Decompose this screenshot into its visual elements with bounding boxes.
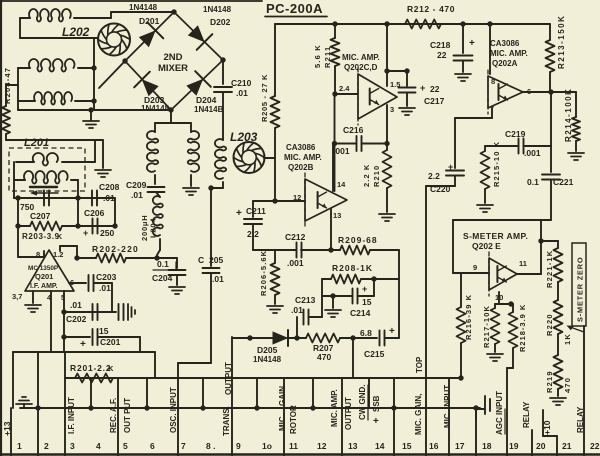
wire (232, 337, 297, 339)
svg-text:+: + (389, 326, 395, 337)
svg-text:1N4148: 1N4148 (141, 104, 170, 113)
label R217-10K (482, 305, 491, 348)
wire (157, 258, 177, 268)
svg-text:MIC. AMP.: MIC. AMP. (330, 389, 339, 427)
label 750 (20, 202, 34, 212)
resistor R221 zigzag (554, 248, 563, 282)
svg-text:Q201: Q201 (35, 272, 53, 281)
svg-text:C219: C219 (505, 129, 526, 139)
bus node terminal 12 (310, 405, 315, 410)
wire (155, 110, 191, 132)
svg-text:+: + (469, 38, 475, 49)
node (15, 223, 117, 228)
svg-text:13: 13 (333, 211, 341, 220)
svg-text:7: 7 (181, 441, 186, 451)
svg-text:MIC.: MIC. (278, 414, 287, 431)
terminal 21 wire (543, 410, 557, 456)
svg-text:14: 14 (375, 441, 385, 451)
pin 3 (390, 105, 394, 114)
wire (426, 176, 455, 186)
svg-text:CA3086: CA3086 (286, 143, 316, 152)
trimmer fan L203 (234, 142, 265, 173)
pin 5 (61, 291, 65, 352)
wire (334, 24, 336, 94)
svg-text:C211: C211 (246, 206, 266, 216)
pin 7 (490, 104, 494, 113)
label OUTPUT upper (224, 362, 233, 395)
label OUT PUT (123, 398, 132, 433)
node (91, 65, 96, 103)
svg-text:19: 19 (509, 441, 519, 451)
label OSC INPUT (169, 387, 178, 433)
capacitor C218 (454, 24, 473, 61)
capacitor C210 (214, 87, 232, 92)
svg-text:20: 20 (536, 441, 546, 451)
svg-text:I.F. INPUT: I.F. INPUT (67, 397, 76, 434)
wire (77, 257, 157, 259)
terminal 1 wire (10, 408, 12, 456)
resistor R208 zigzag (331, 275, 361, 284)
pin 12 (293, 193, 301, 202)
wire (14, 162, 18, 198)
terminal 14 wire (368, 378, 370, 408)
ground (487, 344, 503, 361)
label C205 (198, 255, 223, 265)
capacitor C203 (89, 275, 94, 291)
svg-text:+: + (420, 83, 425, 93)
svg-text:D205: D205 (257, 345, 278, 355)
capacitor C209 (148, 175, 165, 197)
border bottom edge (0, 453, 600, 456)
svg-text:R210: R210 (372, 165, 381, 187)
inductor winding 2 (29, 59, 75, 72)
capacitor C221 (542, 146, 560, 180)
ground (169, 275, 185, 294)
svg-text:PC-200A: PC-200A (266, 1, 323, 16)
svg-text:470: 470 (317, 352, 331, 362)
label RELAY t20 (522, 401, 531, 428)
diode D205 (273, 330, 288, 346)
terminal number 13 (348, 441, 358, 451)
node bridge top (171, 9, 176, 14)
ground (325, 296, 341, 317)
wire (98, 337, 140, 352)
label R214-100K (564, 88, 573, 142)
label L201 (24, 137, 49, 149)
svg-text:1N4148: 1N4148 (129, 3, 158, 12)
wire (75, 68, 94, 101)
label R215-10K (492, 141, 501, 187)
node (247, 335, 252, 340)
terminal number 1 (17, 441, 22, 451)
svg-text:Q202C,D: Q202C,D (344, 63, 378, 72)
wire row C207 C208 (18, 197, 115, 199)
pin 10 (495, 293, 503, 302)
capacitor C219 (519, 139, 524, 154)
wire (74, 12, 174, 18)
svg-text:1K: 1K (563, 333, 572, 345)
svg-text:R216-39 K: R216-39 K (464, 294, 473, 340)
capacitor C214 (353, 289, 358, 304)
label R207 470 (313, 343, 334, 362)
node (332, 21, 337, 26)
svg-text:C217: C217 (424, 96, 445, 106)
inductor L201 main winding (14, 171, 78, 198)
svg-text:8 .: 8 . (206, 441, 215, 451)
terminal number 21 (562, 441, 572, 451)
svg-text:C216: C216 (343, 125, 364, 135)
label R213-150K (557, 15, 566, 69)
ground (550, 389, 566, 405)
node (74, 255, 79, 260)
label plus (389, 326, 395, 337)
terminal number 3 (70, 441, 75, 451)
svg-text:5.6 K: 5.6 K (313, 44, 322, 68)
svg-text:C215: C215 (364, 349, 385, 359)
label 200uH (140, 214, 149, 241)
svg-text:MIC. AMP.: MIC. AMP. (284, 153, 322, 162)
svg-text:ROTOR: ROTOR (289, 405, 298, 434)
node (487, 21, 492, 26)
terminal number 8 . (206, 441, 215, 451)
label CW GND (358, 384, 368, 420)
label SSB (372, 395, 381, 427)
svg-text:Q202 E: Q202 E (472, 241, 501, 251)
capacitor C208 (92, 191, 97, 206)
svg-text:.01: .01 (99, 283, 111, 293)
capacitor C216 (357, 136, 362, 151)
svg-text:C221: C221 (553, 177, 574, 187)
terminal 15 wire (393, 378, 395, 456)
node (61, 309, 66, 339)
node bridge left (122, 58, 127, 63)
wire (335, 143, 388, 145)
wire (335, 93, 358, 95)
svg-text:R214-100K: R214-100K (564, 88, 573, 142)
pin 1.2 (53, 246, 77, 259)
terminal 3 wire (64, 352, 66, 456)
node (384, 21, 389, 26)
terminal number 22 (590, 441, 600, 451)
op-amp Q202C,D (358, 68, 397, 125)
terminal number 9 (236, 441, 241, 451)
svg-text:CA3086: CA3086 (490, 39, 520, 48)
svg-text:11: 11 (519, 259, 527, 268)
pin 8 (491, 77, 495, 86)
svg-text:2.4: 2.4 (339, 84, 350, 93)
svg-text:C218: C218 (430, 40, 451, 50)
tuning arrow (30, 190, 58, 195)
bus node terminal 10 (254, 405, 259, 410)
svg-text:6: 6 (150, 441, 155, 451)
svg-text:205: 205 (209, 255, 223, 265)
label C214 (350, 284, 372, 318)
ground (379, 188, 395, 221)
svg-text:R218-3.9 K: R218-3.9 K (518, 304, 527, 352)
svg-text:22: 22 (430, 84, 440, 94)
svg-text:GAIN: GAIN (278, 386, 287, 406)
wire (332, 144, 334, 192)
terminal 17 wire (448, 378, 450, 456)
label MIC GAIN t16 (414, 394, 423, 435)
svg-text:Q202A: Q202A (492, 59, 518, 68)
svg-text:3,7: 3,7 (12, 292, 22, 301)
terminal 5 wire (117, 378, 119, 456)
label 1N4148 D201 (129, 3, 158, 12)
label C220 (428, 162, 453, 194)
wire (557, 334, 559, 355)
wire (453, 180, 551, 273)
label R218-3.9K (518, 304, 527, 352)
wire (460, 343, 462, 378)
svg-text:.01: .01 (291, 305, 303, 315)
wire (453, 272, 489, 274)
node bridge right (220, 57, 225, 62)
terminal number 6 (150, 441, 155, 451)
wire (178, 273, 211, 363)
slug bar (30, 186, 57, 188)
label +10 (542, 420, 552, 435)
svg-text:2.2 K: 2.2 K (362, 164, 371, 187)
svg-text:2: 2 (44, 441, 49, 451)
svg-text:C206: C206 (84, 208, 105, 218)
svg-text:RELAY: RELAY (576, 406, 585, 433)
svg-text:D201: D201 (139, 16, 160, 26)
svg-text:REC. A.F.: REC. A.F. (109, 398, 118, 433)
ground (183, 175, 199, 195)
svg-text:RELAY: RELAY (522, 401, 531, 428)
label R208-1K (332, 263, 373, 273)
svg-text:5: 5 (123, 441, 128, 451)
wire bus (20, 407, 480, 409)
wire line1 (65, 377, 461, 379)
svg-text:R213-150K: R213-150K (557, 15, 566, 69)
svg-text:R220: R220 (545, 313, 554, 336)
terminal 10 wire (256, 378, 258, 408)
svg-text:.01: .01 (131, 190, 143, 200)
label CA3086 Q202A (490, 39, 528, 68)
capacitor C211 (244, 201, 262, 224)
inductor secondary vertical (188, 131, 199, 172)
ground (83, 110, 99, 128)
dashed box L201 (9, 148, 85, 191)
capacitor C207 (44, 191, 49, 206)
label D203 (144, 95, 165, 105)
svg-text:R221-1K: R221-1K (545, 250, 554, 288)
label R203-3.9K (22, 232, 62, 241)
terminal 16 wire (425, 186, 427, 456)
node (330, 293, 335, 298)
wire row C202 (64, 311, 116, 313)
node (350, 335, 355, 340)
label MIC INPUT (443, 385, 452, 428)
label MC1350P (28, 265, 59, 272)
svg-text:C201: C201 (100, 337, 121, 347)
label C218 (430, 38, 475, 60)
svg-text:22: 22 (590, 441, 600, 451)
terminal number 19 (509, 441, 519, 451)
wire (485, 145, 551, 147)
svg-text:S-METER AMP.: S-METER AMP. (463, 231, 528, 241)
terminal number 1o (262, 441, 272, 451)
svg-text:MIC. AMP.: MIC. AMP. (342, 53, 380, 62)
label plus (80, 339, 86, 350)
ground sideways (128, 304, 135, 320)
svg-text:R206-5.6K: R206-5.6K (259, 250, 268, 296)
terminal 8 wire (202, 378, 204, 408)
svg-text:1N4148: 1N4148 (203, 5, 232, 14)
svg-text:R212 - 470: R212 - 470 (407, 4, 455, 14)
wire (77, 198, 79, 226)
pin 9 (473, 263, 477, 272)
svg-text:.001: .001 (287, 258, 304, 268)
svg-text:.01: .01 (212, 274, 224, 284)
terminal 4 wire (90, 378, 92, 408)
node (88, 107, 93, 112)
terminal number 4 (96, 441, 101, 451)
svg-text:OUTPUT: OUTPUT (224, 362, 233, 395)
svg-text:R219: R219 (545, 370, 554, 393)
terminal 11 wire (283, 378, 285, 456)
svg-text:C203: C203 (96, 272, 117, 282)
wire (274, 128, 276, 198)
label 5.6K R211 (313, 44, 332, 68)
capacitor C206 (84, 208, 105, 234)
node (548, 89, 553, 94)
bus node terminal 15 (391, 405, 396, 410)
svg-text:0.1: 0.1 (157, 259, 169, 269)
label 1N4148 D203 (141, 104, 170, 113)
label C215 (364, 349, 385, 359)
wire (275, 200, 305, 202)
terminal number 18 (482, 441, 492, 451)
label C216 (343, 125, 364, 135)
label C205 value (212, 274, 224, 284)
label C216 value (333, 146, 350, 156)
svg-text:1N4148: 1N4148 (253, 355, 282, 364)
label D202 (210, 17, 231, 27)
svg-text:C212: C212 (285, 232, 306, 242)
svg-text:R208-1K: R208-1K (332, 263, 373, 273)
svg-text:TRANS.: TRANS. (222, 406, 231, 436)
wire (211, 182, 223, 188)
label 0.1 box (153, 259, 176, 270)
wire (222, 60, 224, 84)
wire row C201 (64, 336, 90, 338)
svg-text:.001: .001 (333, 146, 350, 156)
svg-text:R202-220: R202-220 (92, 244, 139, 254)
ground (95, 140, 111, 177)
label C221 (527, 177, 574, 187)
ground (399, 93, 415, 115)
label MIC AMP Q202CD (342, 53, 380, 72)
svg-text:3: 3 (70, 441, 75, 451)
capacitor C220 (446, 171, 464, 176)
pin 6 (527, 87, 531, 96)
label R212-470 (407, 4, 455, 14)
svg-text:+: + (373, 416, 379, 427)
label L204 (149, 218, 158, 238)
svg-text:14: 14 (337, 180, 346, 189)
label C202 (66, 314, 87, 324)
label MIC AMP (330, 389, 339, 427)
label R202-220 (92, 244, 139, 254)
wire (387, 70, 407, 72)
op-amp Q202A (488, 70, 523, 114)
svg-text:.01: .01 (236, 88, 248, 98)
wire (94, 283, 112, 312)
wire (489, 24, 491, 74)
svg-text:1.2: 1.2 (53, 250, 63, 259)
svg-text:L202: L202 (62, 25, 90, 39)
svg-text:R215-10 K: R215-10 K (492, 141, 501, 187)
label 1N4148 D202 (203, 5, 232, 14)
pin 11 (519, 259, 527, 268)
inductor L201 small winding (16, 140, 95, 166)
svg-text:.001: .001 (524, 148, 541, 158)
capacitor C213 (297, 310, 322, 339)
pin 7 wire (455, 108, 492, 168)
bus node terminal 18 (473, 405, 478, 410)
label S-METER AMP (463, 231, 528, 241)
label ROTOR (289, 405, 298, 434)
svg-text:11: 11 (289, 441, 298, 451)
inductor primary vertical (147, 131, 158, 172)
capacitor C204 (169, 270, 186, 275)
resistor R202 zigzag (96, 254, 126, 263)
terminal 6 wire (146, 378, 148, 408)
label CA3086 Q202B (284, 143, 322, 172)
terminal 2 wire (37, 352, 39, 456)
pin 14 (337, 180, 346, 189)
ground (25, 291, 41, 312)
svg-text:1: 1 (17, 441, 22, 451)
wire (18, 100, 35, 102)
label R201-2.2K (70, 363, 114, 373)
svg-text:K: K (57, 234, 62, 241)
label Q201 (35, 272, 53, 281)
terminal number 5 (123, 441, 128, 451)
pin 2.4 (339, 84, 350, 93)
wire (385, 337, 400, 339)
label 2.2K R210 (362, 164, 381, 187)
wire (460, 273, 462, 307)
terminal 9 wire (231, 337, 233, 456)
resistor R207 zigzag (306, 334, 340, 343)
wire (333, 279, 374, 296)
wire (222, 92, 224, 140)
title PC-200A (265, 1, 327, 17)
wire (386, 24, 388, 86)
label R205-27K (260, 74, 269, 122)
label IF INPUT (67, 397, 76, 434)
wire (18, 68, 30, 110)
wire (253, 200, 275, 202)
label REC AF (109, 398, 118, 433)
node (208, 185, 213, 190)
inductor L202 top winding (29, 9, 71, 22)
svg-text:+13: +13 (2, 421, 12, 436)
node (371, 276, 376, 281)
svg-text:C209: C209 (126, 180, 147, 190)
svg-text:1o: 1o (262, 441, 272, 451)
wire bottom rail (18, 109, 171, 111)
node (384, 68, 409, 73)
terminal number 15 (402, 441, 412, 451)
label R216-39K (464, 294, 473, 340)
label R221-1K (545, 250, 554, 288)
terminal number 12 (317, 441, 327, 451)
